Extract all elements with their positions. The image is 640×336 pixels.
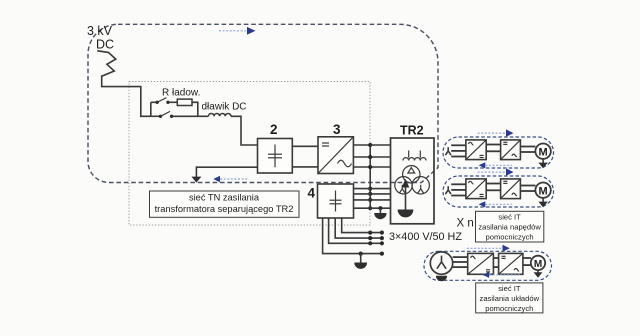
DC link wires xyxy=(486,183,500,185)
arrow: return below chain 2 xyxy=(479,201,486,207)
dashed boundary: 3kV DC converter zone xyxy=(88,24,438,182)
capacitor C in block 4 xyxy=(330,191,342,212)
wire: block 4 to TR2 (3) xyxy=(354,199,391,201)
svg-text:3: 3 xyxy=(333,122,341,137)
wire: block 4 to TR2 (1) xyxy=(354,188,391,190)
svg-text:3 kV: 3 kV xyxy=(87,24,113,38)
three phase wires xyxy=(451,144,466,146)
stadium boundary chain 3 xyxy=(424,251,552,280)
wire: vertical bus xyxy=(369,145,371,208)
switch S2 (main, lower) xyxy=(151,111,209,118)
motor M chain 3 xyxy=(531,256,545,270)
rectifier box chain 3 xyxy=(468,253,494,274)
text box: siec IT zasilania napedow xyxy=(476,211,544,242)
TR2 winding circle bottom-right xyxy=(412,177,429,194)
wire: block 4 to TR2 (2) xyxy=(354,193,391,195)
dotted enclosure: TN network area xyxy=(129,82,370,226)
svg-text:M: M xyxy=(534,259,542,270)
svg-text:pomocniczych: pomocniczych xyxy=(486,232,534,241)
rectifier box chain 1 xyxy=(466,140,486,160)
stadium boundary chain 1 xyxy=(443,137,554,168)
wire: to block 2 xyxy=(231,116,258,145)
motor M chain 2 xyxy=(535,183,550,198)
TR2 winding circle bottom-left xyxy=(395,177,412,194)
text box: siec IT zasilania ukladow xyxy=(476,283,543,313)
wire: phase line 3 to TR2 (2) xyxy=(353,156,390,158)
inductor dlawik DC xyxy=(209,114,231,117)
arrow: return below chain 1 xyxy=(479,162,486,168)
rectifier box chain 2 xyxy=(466,179,486,199)
wire: LV bus phase L1 xyxy=(342,218,382,233)
arrow: return flow (blue, left) xyxy=(213,176,249,182)
motor feed wires xyxy=(520,185,535,187)
motor feed wires xyxy=(523,257,531,259)
junction dots LV bus xyxy=(359,231,384,256)
svg-text:DC: DC xyxy=(96,38,114,52)
block 2: input filter xyxy=(258,139,293,174)
arrow: flow above chain 2 xyxy=(478,171,506,173)
inverter box chain 1 xyxy=(501,140,521,160)
svg-text:TR2: TR2 xyxy=(400,124,424,138)
svg-text:M: M xyxy=(539,185,548,197)
inverter box chain 2 xyxy=(501,179,521,199)
svg-text:sieć IT: sieć IT xyxy=(498,284,521,293)
svg-text:pomocniczych: pomocniczych xyxy=(485,304,533,313)
wire: charging branch right xyxy=(192,102,198,116)
svg-text:sieć IT: sieć IT xyxy=(498,213,521,222)
motor ground chain 2 xyxy=(542,198,544,202)
delta symbol in top circle xyxy=(408,168,415,173)
motor ground chain 3 xyxy=(537,270,539,272)
wire: LV bus neutral/PE xyxy=(323,218,382,254)
symbol = in block 3 xyxy=(322,143,329,146)
wire: DC link 2 to 3 (lower) xyxy=(292,166,318,168)
svg-text:3×400 V/50 HZ: 3×400 V/50 HZ xyxy=(389,231,462,243)
arrow: energy flow top (blue) xyxy=(219,27,256,35)
wye symbol bottom-left xyxy=(399,185,405,194)
text box: siec TN zasilania xyxy=(150,191,300,217)
wye source symbol xyxy=(445,147,451,155)
svg-text:2: 2 xyxy=(270,122,278,137)
TR2 ground arrow xyxy=(398,179,414,218)
arrow: flow above chain 1 xyxy=(478,132,506,134)
inverter box chain 3 xyxy=(499,253,523,274)
capacitor C in block 2 xyxy=(268,145,282,168)
block 4: filter xyxy=(318,184,354,218)
motor feed wires xyxy=(520,146,535,148)
svg-text:X n: X n xyxy=(457,218,474,230)
resistor R ladow. xyxy=(177,99,192,105)
svg-text:4: 4 xyxy=(308,186,316,201)
generator ground xyxy=(436,276,447,282)
svg-text:M: M xyxy=(539,146,548,158)
ground at neutral bus xyxy=(374,206,386,219)
wire: LV bus phase L2 xyxy=(335,218,382,238)
svg-text:dławik DC: dławik DC xyxy=(202,102,247,113)
wire: block 4 to TR2 (4 neutral) xyxy=(354,207,391,209)
arrow: flow above chain 3 xyxy=(467,247,503,249)
svg-text:sieć TN zasilania: sieć TN zasilania xyxy=(189,193,260,203)
motor ground chain 1 xyxy=(542,159,544,163)
motor M chain 1 xyxy=(535,144,550,159)
svg-text:zasilania układów: zasilania układów xyxy=(480,294,540,303)
transformer TR2 box xyxy=(391,138,435,224)
wye source symbol xyxy=(445,186,451,194)
wire: phase line 3 to TR2 (1) xyxy=(353,144,390,146)
arrow: return below chain 3 xyxy=(483,272,490,278)
wire: pantograph zigzag from 3 kV DC line xyxy=(97,51,151,117)
svg-text:transformatora separującego TR: transformatora separującego TR2 xyxy=(155,204,294,214)
block 3: inverter DC/AC xyxy=(318,137,353,174)
ground at LV neutral xyxy=(354,254,367,269)
DC link wires xyxy=(486,144,500,146)
node: charging branch left xyxy=(150,102,152,116)
wye symbol bottom-right xyxy=(418,185,424,194)
svg-text:zasilania napędów: zasilania napędów xyxy=(478,223,541,232)
wire: negative rail with down arrow xyxy=(196,167,257,177)
three phase wires xyxy=(451,183,466,185)
symbol ~ in block 3 xyxy=(338,160,352,167)
switch S1 (charging branch, upper) xyxy=(151,98,178,104)
stadium boundary chain 2 xyxy=(443,176,554,207)
three phase wires xyxy=(453,256,468,258)
wire: DC link 2 to 3 (upper) xyxy=(292,145,318,147)
junction dots on bus xyxy=(368,143,372,210)
TR2 winding circle top xyxy=(403,166,420,183)
svg-text:R ładow.: R ładow. xyxy=(162,88,200,99)
TR2 primary winding symbol xyxy=(403,151,426,161)
wire: phase line 3 to TR2 (3) xyxy=(353,166,390,168)
generator circle with wye xyxy=(430,252,452,274)
wire: LV bus phase L3 xyxy=(329,218,382,243)
DC link wires xyxy=(493,257,498,259)
